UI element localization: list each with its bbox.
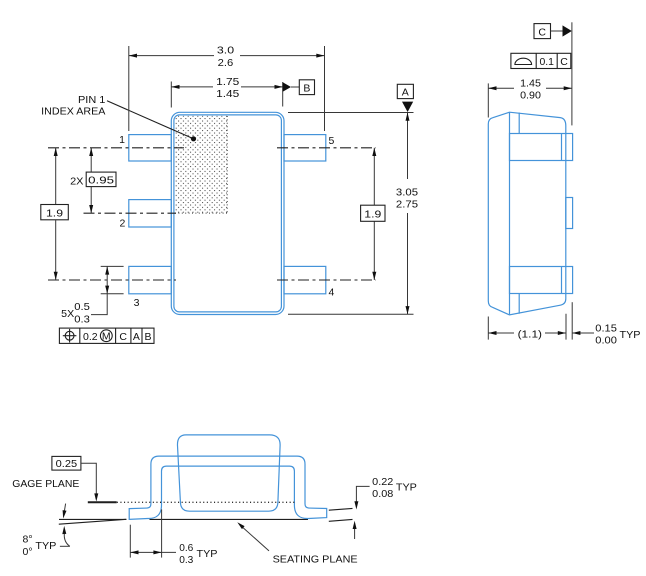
centerline pin 5 [277,147,376,149]
svg-text:B: B [144,331,151,343]
svg-text:5X: 5X [61,308,74,320]
package body outline (top view) [171,112,284,314]
svg-text:B: B [303,83,310,95]
svg-text:2.75: 2.75 [396,199,418,211]
dim (1.1) extension lines [487,317,489,340]
pin 1 index area (dotted fill) [175,116,228,214]
package body inner edge [174,115,282,312]
dim 2X 0.95 dimension line with arrows [90,148,92,172]
svg-text:0.95: 0.95 [88,175,114,187]
datum C box [534,24,551,39]
svg-text:0.6: 0.6 [179,542,193,554]
svg-text:0.3: 0.3 [74,314,90,326]
dim 3.05/2.75 dimension line with arrows [407,113,409,180]
svg-text:0.22: 0.22 [372,476,393,488]
dim 5X 0.5/0.3 leader [91,294,107,315]
dim 0.15/0.00 extension line [571,302,573,339]
dim 1.9 right box [361,205,385,221]
profile tolerance frame 0.1 C [511,53,571,68]
svg-text:3.05: 3.05 [396,186,418,198]
side view lead stub line top [518,113,520,134]
dim 1.9 left dimension line with arrows [55,148,57,204]
dim 0.25 box [52,456,81,470]
dim 1.45/0.90 extension line left [487,83,489,117]
svg-text:C: C [560,56,568,68]
svg-text:0.08: 0.08 [372,488,393,500]
svg-text:TYP: TYP [197,548,218,560]
svg-text:2X: 2X [70,176,83,188]
dim 0.22/0.08 arrows [356,486,369,502]
centerline pin 2 [84,212,177,214]
side view mold parting line [509,112,511,314]
side view lead band bottom (pins 3/4) [510,267,573,294]
svg-text:(1.1): (1.1) [518,328,542,340]
svg-text:A: A [133,331,140,343]
centerline pin 4 [277,279,376,281]
dim 3.0/2.6 extension lines [128,46,130,131]
svg-text:3: 3 [134,297,140,309]
dim 3.05/2.75 extension lines [288,112,414,114]
gage plane tick [88,501,117,503]
svg-text:3.0: 3.0 [217,45,234,57]
side view middle lead stub (pin 2) [566,198,573,229]
svg-text:1.45: 1.45 [520,77,541,89]
svg-text:2: 2 [119,217,125,229]
svg-text:0.90: 0.90 [520,90,541,102]
svg-text:4: 4 [329,287,335,299]
lead angle construction line (8 deg) [59,519,127,524]
gage plane dotted line [88,501,296,503]
side view body silhouette [488,112,566,315]
pin 1 leader line and dot [107,101,194,139]
dim 0.15/0.00 arrow leader [572,332,594,334]
side view lead stub line bottom [518,294,520,314]
dim 0.6/0.3 extension lines [129,525,131,558]
svg-text:C: C [538,27,546,39]
svg-text:0.15: 0.15 [595,322,617,334]
svg-text:M: M [102,330,111,342]
svg-text:8°: 8° [23,534,33,546]
svg-text:0.5: 0.5 [74,301,90,313]
svg-text:0.25: 0.25 [56,458,78,470]
svg-text:0.1: 0.1 [539,56,554,68]
feature control frame position 0.2 M C A B [59,328,154,343]
dim (1.1) dimension line with arrows [488,332,514,334]
svg-text:0.2: 0.2 [83,331,98,343]
svg-text:5: 5 [329,135,335,147]
pin 1 [129,135,172,161]
formed lead profile (both leads and plateau) [129,456,327,519]
centerline pin 1 [48,147,184,149]
datum A box [397,84,413,98]
svg-text:GAGE PLANE: GAGE PLANE [12,478,79,490]
index area dotted boundary [175,212,227,214]
datum C leader and triangle [551,30,564,32]
position symbol [65,331,74,340]
svg-text:TYP: TYP [35,540,56,552]
dim 0.22/0.08 tick lines [329,508,353,510]
gage plane leader with arrow [81,463,96,494]
datum B triangle [283,82,291,92]
dim 5X 0.5/0.3 arrows [106,266,108,293]
dim 1.75/1.45 extension lines [170,82,172,108]
pin 2 [129,200,172,227]
svg-text:0°: 0° [23,546,33,558]
svg-text:1.9: 1.9 [364,209,381,221]
svg-text:1.9: 1.9 [46,207,63,219]
pin 5 [284,135,326,161]
centerline pin 3 [48,279,176,281]
angle dim arrows (8/0 deg) [64,504,65,511]
dim 3.0/2.6 dimension line with arrows [129,55,214,57]
dim 5X 0.5/0.3 tick lines [101,265,124,267]
svg-text:0.00: 0.00 [595,335,617,347]
svg-text:TYP: TYP [396,482,417,494]
svg-text:C: C [119,331,127,343]
datum A triangle [402,102,413,112]
svg-text:0.3: 0.3 [179,554,193,566]
dim 1.45/0.90 dimension line with arrows [488,87,514,89]
svg-text:2.6: 2.6 [218,57,234,69]
dim 1.9 left box [41,205,69,220]
package body outline (profile) [177,435,280,511]
dim 1.75/1.45 dimension line with arrows [171,86,213,88]
profile of a surface symbol [515,58,532,64]
SEATING PLANE label and leader [240,525,270,551]
svg-text:A: A [402,87,409,99]
svg-text:1.45: 1.45 [216,88,239,100]
pin 3 [129,266,172,293]
svg-text:1: 1 [119,134,125,146]
svg-text:SEATING PLANE: SEATING PLANE [273,553,358,565]
svg-text:INDEX AREA: INDEX AREA [41,106,105,118]
datum B box [299,80,314,95]
side view lead band top (pins 1/5) [510,134,573,161]
seating plane line [59,518,126,520]
svg-text:TYP: TYP [620,329,641,341]
dim 1.9 right dimension line with arrows [373,148,375,205]
svg-text:PIN 1: PIN 1 [78,94,106,106]
pin 4 [284,266,326,293]
dim 0.6/0.3 dimension line with arrows [130,551,176,553]
datum C extension line (lead tips plane) [571,22,573,125]
svg-text:1.75: 1.75 [216,76,239,88]
